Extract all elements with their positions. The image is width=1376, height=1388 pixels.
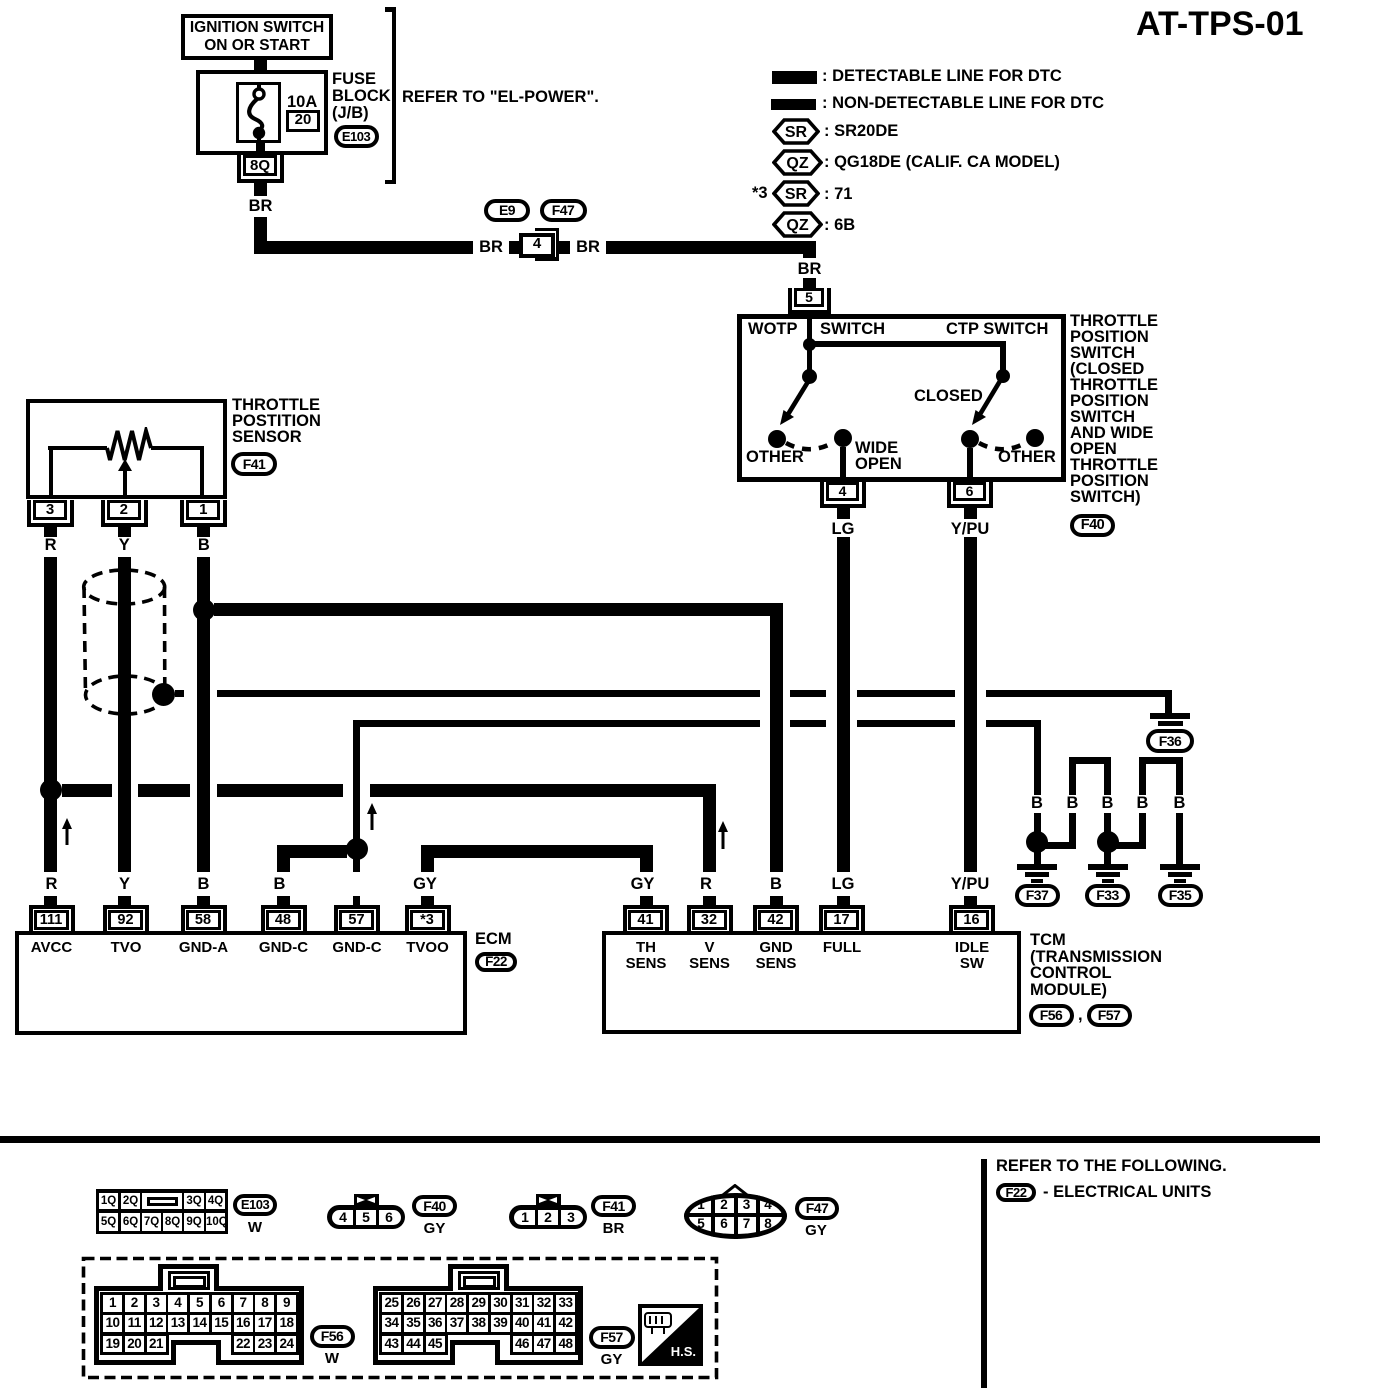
svg-text:QZ: QZ bbox=[786, 217, 808, 234]
svg-text:QZ: QZ bbox=[786, 155, 808, 172]
svg-text:SR: SR bbox=[785, 186, 808, 203]
svg-text:SR: SR bbox=[785, 124, 808, 141]
svg-text:H.S.: H.S. bbox=[671, 1344, 696, 1359]
